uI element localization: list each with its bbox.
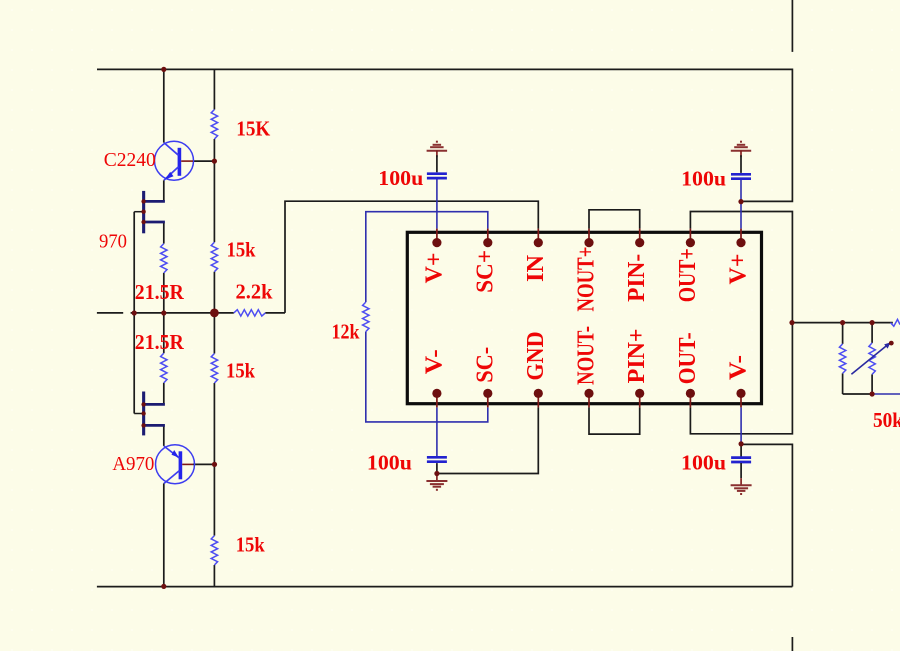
svg-text:100u: 100u [367, 451, 412, 475]
node pot right junction [870, 320, 875, 325]
pot 50k wiper arrow [851, 341, 893, 375]
wire JFET1 source column [163, 222, 165, 244]
node A970 base [212, 462, 217, 467]
IC pin stubs [437, 229, 741, 408]
wire gnd2 to cap2 [740, 155, 742, 173]
wire GND route [437, 407, 538, 473]
svg-text:PIN-: PIN- [624, 254, 650, 302]
node pot bottom junction [870, 391, 875, 396]
wire 15k-4 to bottom rail [213, 565, 215, 587]
IC U1 box [407, 232, 761, 403]
wire output blue [872, 393, 900, 395]
JFET J2 970 [134, 392, 165, 436]
node V+ cap junction [738, 199, 743, 204]
wire 21.5R-1 to mid rail [163, 273, 165, 313]
wire NOUT+ PIN- bridge [589, 210, 640, 229]
wire cap3 lead blue [436, 407, 438, 456]
svg-text:IN: IN [523, 254, 549, 282]
resistor pot body left [839, 344, 845, 374]
wire pot top rail [792, 322, 893, 324]
svg-text:C2240: C2240 [104, 149, 156, 171]
wire 2.2k right lead [265, 312, 285, 314]
capacitor C2 100u [731, 174, 751, 178]
node pot left junction [840, 320, 845, 325]
svg-text:V-: V- [421, 349, 447, 374]
resistor 21.5R-2 [161, 353, 167, 383]
capacitor C1 100u [427, 174, 447, 178]
resistor 21.5R-1 [161, 244, 167, 273]
resistor 12k [363, 302, 369, 332]
wire cap4 lead blue [740, 407, 742, 444]
transistor Q2 A970 [156, 445, 195, 484]
svg-text:15k: 15k [226, 359, 255, 383]
capacitor C4 100u [731, 458, 751, 462]
svg-text:12k: 12k [332, 320, 360, 344]
node feedback junction [210, 309, 219, 318]
wire cap1 lead blue [436, 179, 438, 228]
capacitor C3 100u [427, 457, 447, 461]
svg-text:100u: 100u [681, 167, 726, 191]
ground symbol top-right [731, 142, 751, 158]
transistor Q1 C2240 [155, 141, 194, 180]
wire cap4 top lead [740, 444, 742, 458]
resistor 2.2k [234, 310, 265, 316]
resistor 15k-4 [211, 536, 217, 565]
wire cap4 to gnd4 [740, 463, 742, 478]
wire SC- blue route [366, 332, 488, 422]
svg-text:V+: V+ [726, 254, 752, 285]
node V+ rail junction [161, 67, 166, 72]
node C2240 base [212, 159, 217, 164]
wire 15K column upper [213, 69, 215, 109]
svg-text:SC+: SC+ [472, 250, 498, 293]
wire 21.5R-2 to JFET2 [163, 383, 165, 405]
svg-text:100u: 100u [681, 451, 726, 475]
JFET J1 970 [134, 191, 165, 233]
resistor 15K [211, 110, 217, 140]
node collector-rail junction [161, 584, 166, 589]
wire stub bottom edge [791, 637, 793, 651]
node V- cap junction [739, 441, 744, 446]
wire pot R2 leads [871, 323, 873, 394]
svg-text:V+: V+ [421, 252, 447, 283]
wire V+ top rail [97, 69, 792, 201]
wire mid rail [131, 312, 234, 314]
wire pot R1 leads [842, 323, 844, 394]
wire 21.5R-2 column [163, 313, 165, 353]
svg-text:A970: A970 [112, 453, 154, 475]
wire stub top edge [791, 0, 793, 52]
wire C2240 collector [163, 69, 165, 142]
wire cap2 lead blue [740, 180, 742, 229]
wire 15K to base [213, 139, 215, 242]
node right rail junction [789, 320, 794, 325]
wire A970 collector [163, 483, 165, 586]
ground symbol top-left [427, 142, 448, 158]
node GND cap junction [434, 471, 439, 476]
svg-text:15K: 15K [236, 117, 271, 141]
svg-text:OUT-: OUT- [675, 332, 701, 384]
svg-text:NOUT+: NOUT+ [574, 247, 600, 312]
svg-text:50k: 50k [873, 408, 900, 432]
wire IN route [285, 201, 538, 313]
resistor edge cut [891, 319, 900, 326]
wire JFET2 source to A970 [163, 425, 165, 446]
wire A970 base column lower [213, 464, 215, 535]
wire bottom rail [97, 586, 793, 588]
wire 15k-3 to A970 base [213, 383, 215, 464]
svg-text:GND: GND [523, 332, 549, 381]
wire mid rail left stub [97, 312, 123, 314]
wire gate bus [133, 212, 135, 414]
wire emitter to JFET drain [163, 180, 165, 201]
svg-text:NOUT-: NOUT- [574, 326, 600, 385]
svg-text:V-: V- [726, 355, 752, 380]
svg-text:15k: 15k [236, 533, 265, 557]
svg-text:PIN+: PIN+ [624, 328, 650, 383]
ground symbol bottom-left [426, 474, 447, 490]
wire cap3 to gnd3 [436, 463, 438, 473]
wire V- route [741, 444, 792, 586]
node 21.5R junction [161, 310, 166, 315]
wire base C2240 [193, 160, 214, 162]
svg-text:21.5R: 21.5R [135, 330, 185, 354]
resistor 15k-2 [211, 242, 217, 272]
svg-text:SC-: SC- [472, 347, 498, 383]
IC pins [432, 238, 745, 398]
svg-text:15k: 15k [227, 238, 256, 262]
ground symbol bottom-right [731, 478, 752, 494]
node gate junction [132, 310, 137, 315]
wire gnd1 to cap1 [436, 155, 438, 172]
wire 15k-2 lower [213, 272, 215, 354]
svg-text:21.5R: 21.5R [135, 280, 185, 304]
wire base A970 [193, 463, 214, 465]
wire SC+ blue route [366, 212, 488, 302]
svg-text:OUT+: OUT+ [675, 248, 701, 302]
resistor 15k-3 [211, 354, 217, 384]
svg-text:100u: 100u [378, 166, 423, 190]
svg-text:970: 970 [99, 230, 127, 252]
wire NOUT- PIN+ bridge [589, 407, 640, 434]
resistor pot body right [869, 343, 875, 375]
wire OUT+ OUT- loop [690, 212, 792, 434]
svg-text:2.2k: 2.2k [236, 279, 273, 303]
wire pot bottom rail [843, 393, 873, 395]
